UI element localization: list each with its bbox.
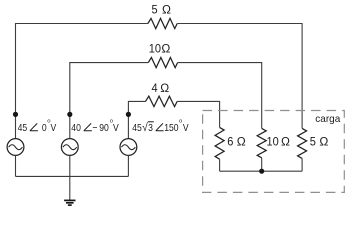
svg-text:Ω: Ω xyxy=(161,42,170,56)
resistor RL1 6-ohm (load) xyxy=(215,127,224,159)
wire: branch 2 left vertical and run to 10-ohm xyxy=(70,63,149,139)
load box (dashed, carga) xyxy=(203,111,345,193)
svg-text:Ω: Ω xyxy=(162,3,171,17)
svg-text:−: − xyxy=(92,122,97,134)
node c (junction dot, source 3 terminal) xyxy=(126,112,131,117)
svg-text:V: V xyxy=(51,122,57,134)
wire: branch 1 left vertical and top run to 5-ohm xyxy=(16,24,148,139)
label 5-ohm xyxy=(152,4,158,16)
svg-text:4: 4 xyxy=(152,83,159,95)
svg-text:5: 5 xyxy=(310,136,316,148)
svg-text:150: 150 xyxy=(164,122,178,134)
resistor R1 5-ohm (series, top branch) xyxy=(148,18,177,28)
label 5-ohm load xyxy=(310,136,316,148)
svg-text:Ω: Ω xyxy=(160,81,169,95)
source V3 45*sqrt(3) angle 150 V xyxy=(120,139,137,156)
node b (junction dot, source 2 terminal) xyxy=(67,112,72,117)
source V2 40 angle -90 V xyxy=(61,139,78,156)
svg-text:40: 40 xyxy=(71,122,81,134)
label 4-ohm xyxy=(152,83,159,95)
source V1 45 angle 0 V xyxy=(7,139,24,156)
node a (junction dot, source 1 terminal) xyxy=(13,112,18,117)
wire: source 2 bottom lead xyxy=(69,155,71,176)
svg-text:Ω: Ω xyxy=(319,135,328,149)
wire: load bottom rail xyxy=(220,170,303,172)
label 10-ohm load xyxy=(267,136,279,148)
svg-text:10: 10 xyxy=(267,136,279,148)
wire: source 3 bottom lead xyxy=(127,155,129,176)
resistor RL3 5-ohm (load) xyxy=(298,128,307,158)
svg-text:6: 6 xyxy=(227,136,233,148)
wire: 6-ohm bottom lead xyxy=(219,159,221,171)
wire: branch 3 left vertical and run to 4-ohm xyxy=(128,101,145,138)
label 10-ohm xyxy=(149,43,161,55)
label V2: 40 angle -90 deg V xyxy=(71,119,119,134)
resistor R2 10-ohm (series, middle branch) xyxy=(148,57,177,67)
label V1: 45 angle 0 deg V xyxy=(18,119,57,134)
wire: 10-ohm bottom lead xyxy=(261,158,263,171)
resistor RL2 10-ohm (load) xyxy=(257,128,266,157)
svg-text:0: 0 xyxy=(42,122,47,134)
svg-text:5: 5 xyxy=(152,4,158,16)
wire: branch 3 right run and drop to load xyxy=(177,101,219,127)
svg-text:45: 45 xyxy=(132,122,142,134)
svg-text:Ω: Ω xyxy=(237,135,246,149)
label V3: 45 sqrt3 angle 150 deg V xyxy=(132,119,189,134)
resistor R3 4-ohm (series, lower branch) xyxy=(146,96,178,106)
svg-text:√: √ xyxy=(142,121,148,134)
svg-text:3: 3 xyxy=(148,122,153,134)
wire: bottom common rail xyxy=(16,175,129,177)
wire: branch 1 right run and drop into load box xyxy=(177,24,302,129)
wire: 5-ohm bottom lead xyxy=(301,158,303,171)
svg-text:V: V xyxy=(113,122,119,134)
label carga xyxy=(315,114,340,125)
svg-text:carga: carga xyxy=(315,114,340,125)
wire: source 1 bottom lead xyxy=(15,155,17,176)
svg-text:10: 10 xyxy=(149,43,161,55)
wire: branch 2 right run and drop to load xyxy=(178,63,262,129)
label 6-ohm xyxy=(227,136,233,148)
ground xyxy=(64,176,75,205)
svg-text:45: 45 xyxy=(18,122,28,134)
node d (junction dot on load rail) xyxy=(259,169,264,174)
svg-text:Ω: Ω xyxy=(281,135,290,149)
svg-text:V: V xyxy=(183,122,189,134)
svg-text:90: 90 xyxy=(99,122,109,134)
